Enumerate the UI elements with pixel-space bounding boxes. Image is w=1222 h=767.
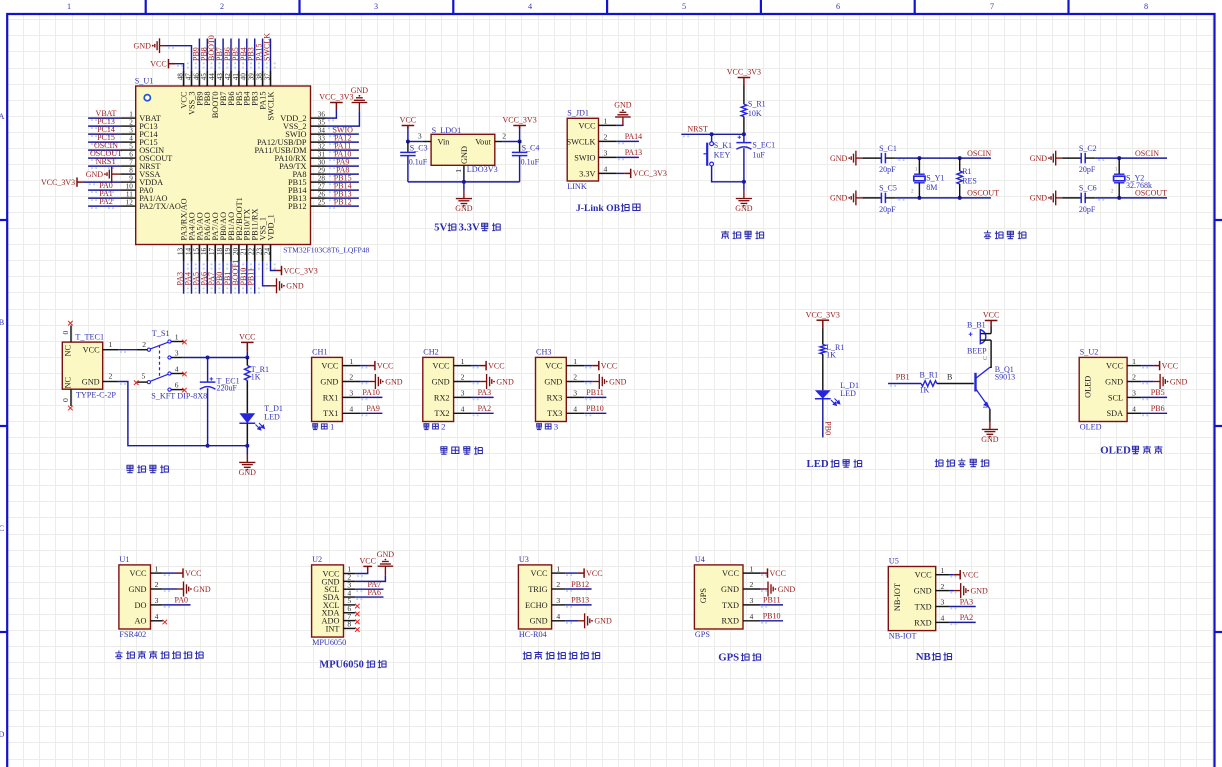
svg-text:T_S1: T_S1	[152, 329, 170, 338]
CH2 pin 1 VCC	[433, 357, 505, 371]
svg-text:13: 13	[177, 247, 185, 255]
U1 pin 33 PA12/USB/DP	[257, 134, 359, 148]
svg-text:GND: GND	[614, 101, 632, 110]
module U2 MPU6050 body	[312, 555, 347, 647]
U1 pin 10 PA0	[88, 181, 153, 195]
svg-text:S_LDO1: S_LDO1	[432, 126, 462, 135]
svg-text:J-Link OB: J-Link OB	[576, 203, 621, 214]
svg-text:3: 3	[129, 126, 133, 134]
svg-text:S_C6: S_C6	[1079, 184, 1097, 193]
U1 pin 29 PA8	[293, 166, 359, 180]
svg-text:BEEP: BEEP	[967, 347, 987, 356]
module CH2 body	[423, 348, 454, 422]
svg-text:T_TEC1: T_TEC1	[75, 332, 104, 341]
LDO pin 2 Vout wire	[495, 132, 522, 144]
CH2 pin 4 TX2	[434, 404, 493, 418]
svg-text:45: 45	[200, 73, 208, 81]
svg-text:0: 0	[61, 398, 70, 402]
svg-text:SWCLK: SWCLK	[566, 137, 595, 146]
svg-text:GPS: GPS	[699, 588, 708, 604]
wire emitter to ground	[989, 409, 991, 422]
svg-text:TX3: TX3	[547, 409, 562, 418]
svg-text:GND: GND	[129, 585, 147, 594]
svg-text:NB: NB	[916, 651, 931, 663]
svg-text:FSR402: FSR402	[119, 630, 146, 639]
svg-text:B: B	[947, 372, 952, 381]
svg-text:GPS: GPS	[695, 630, 710, 639]
svg-text:7: 7	[129, 158, 133, 166]
node NRST wire	[681, 124, 746, 136]
svg-text:S_C5: S_C5	[879, 184, 897, 193]
svg-text:2: 2	[109, 372, 113, 381]
svg-text:39: 39	[248, 73, 256, 81]
U1 pin 39 PB3	[247, 39, 260, 106]
U1 pin 1 VCC	[129, 564, 201, 578]
svg-text:1: 1	[915, 167, 918, 173]
svg-text:1: 1	[330, 421, 334, 431]
svg-text:1: 1	[556, 564, 560, 573]
node OSCOUT wire	[895, 189, 999, 200]
U1 pin 6 OSCOUT	[88, 149, 172, 163]
svg-text:PB11: PB11	[586, 388, 604, 397]
svg-text:S_JD1: S_JD1	[567, 108, 589, 117]
push button S_K1 KEY	[704, 134, 746, 184]
svg-text:TXD: TXD	[915, 602, 932, 611]
svg-text:26: 26	[318, 190, 326, 198]
svg-text:1K: 1K	[920, 386, 930, 395]
svg-text:S_C1: S_C1	[879, 144, 897, 153]
power port VCC_3V3 (LDO output)	[502, 116, 536, 142]
svg-text:3.3V: 3.3V	[459, 222, 480, 234]
svg-text:PB1: PB1	[896, 372, 910, 381]
svg-text:LED: LED	[807, 458, 829, 470]
svg-text:VCC: VCC	[1162, 361, 1178, 370]
svg-text:STM32F103C8T6_LQFP48: STM32F103C8T6_LQFP48	[283, 246, 369, 255]
svg-text:SDA: SDA	[1106, 409, 1123, 418]
svg-text:0.1uF: 0.1uF	[521, 157, 540, 166]
svg-text:CH3: CH3	[536, 348, 551, 357]
svg-text:PB12: PB12	[334, 198, 352, 207]
svg-text:0.1uF: 0.1uF	[409, 157, 428, 166]
svg-text:GND: GND	[530, 617, 548, 626]
svg-text:RXD: RXD	[914, 618, 932, 627]
svg-text:S9013: S9013	[995, 372, 1015, 381]
U1 pin 38 PA15	[255, 39, 268, 110]
U1 pin 36 VDD_2	[280, 93, 353, 123]
CH1 pin 3 RX1	[323, 388, 383, 402]
svg-text:3: 3	[556, 596, 560, 605]
svg-text:2: 2	[604, 132, 608, 141]
U4 pin 3 TXD	[722, 596, 783, 610]
U1 pin 13 PA3/RX/AO	[176, 198, 189, 293]
svg-text:VCC: VCC	[433, 362, 451, 371]
svg-text:PB11: PB11	[763, 596, 781, 605]
transistor B_Q1 S9013	[976, 356, 1016, 409]
U1 pin 12 PA2/TX/AO	[88, 197, 181, 211]
title: film pressure sensing module	[115, 651, 203, 659]
svg-text:NRST: NRST	[96, 157, 117, 166]
svg-text:TX2: TX2	[434, 409, 449, 418]
svg-text:2: 2	[573, 373, 577, 382]
svg-text:29: 29	[318, 166, 326, 174]
svg-text:LED: LED	[264, 412, 280, 421]
ground symbol (reset)	[735, 182, 753, 213]
U1 pin 17 PA7/AO	[207, 212, 220, 293]
svg-text:17: 17	[208, 247, 216, 255]
svg-text:RX2: RX2	[434, 393, 450, 402]
capacitor S_C3 0.1uF	[400, 142, 428, 182]
U1 pin 9 VDDA	[41, 174, 163, 187]
CH1 pin 1 VCC	[321, 357, 393, 371]
U1 pin 34 SWIO	[285, 126, 359, 140]
svg-text:B_R1: B_R1	[920, 371, 939, 380]
title: J-Link OB interface	[576, 203, 640, 214]
svg-text:1: 1	[349, 357, 353, 366]
U1 pin 23 VSS_1	[256, 217, 304, 293]
svg-text:1: 1	[175, 333, 179, 342]
svg-text:PB13: PB13	[571, 596, 589, 605]
CH3 pin 2 GND	[544, 373, 626, 389]
svg-text:44: 44	[208, 73, 216, 81]
svg-text:S_K1: S_K1	[714, 141, 732, 150]
wire switch pin3 to VCC rail	[183, 356, 250, 360]
svg-text:GND: GND	[594, 617, 612, 626]
svg-text:8M: 8M	[926, 183, 937, 192]
svg-text:PA2: PA2	[960, 613, 974, 622]
U3 pin 2 TRIG	[528, 580, 591, 594]
svg-text:20pF: 20pF	[879, 205, 896, 214]
power port VCC_3V3 (LED circuit)	[806, 310, 840, 328]
svg-text:1K: 1K	[826, 351, 836, 360]
svg-text:GND: GND	[351, 86, 369, 95]
svg-text:GND: GND	[778, 585, 796, 594]
svg-text:1uF: 1uF	[752, 150, 765, 159]
svg-text:E: E	[983, 405, 989, 409]
U1 pin 25 PB12	[288, 198, 359, 212]
U4 pin 4 RXD	[721, 612, 783, 626]
svg-text:VCC_3V3: VCC_3V3	[284, 266, 318, 275]
U1 pin 40 PB4	[239, 39, 252, 106]
crystal S_Y1 8M	[911, 158, 945, 198]
svg-text:4: 4	[604, 164, 608, 173]
svg-text:VCC: VCC	[377, 361, 393, 370]
U1 pin 30 PA9/TX	[279, 158, 359, 172]
buzzer B_B1 BEEP	[967, 321, 991, 356]
LDO pin 1 GND lead	[454, 165, 464, 182]
svg-text:S_C3: S_C3	[410, 144, 428, 153]
capacitor T_EC1 220uF (polarized)	[200, 358, 240, 448]
svg-text:25: 25	[318, 198, 326, 206]
svg-text:S_Y1: S_Y1	[926, 174, 944, 183]
svg-text:43: 43	[216, 73, 224, 81]
svg-text:24: 24	[263, 247, 271, 255]
svg-text:MPU6050: MPU6050	[312, 638, 346, 647]
svg-text:2: 2	[441, 421, 445, 431]
svg-text:4: 4	[556, 612, 560, 621]
LDO ground rail wire	[408, 180, 520, 184]
T_TEC1 pin 2 GND wire	[103, 372, 248, 446]
svg-text:D: D	[0, 730, 5, 739]
U2 VCC riser wire and port	[355, 557, 376, 576]
svg-text:3: 3	[418, 132, 422, 141]
svg-text:NB-IOT: NB-IOT	[889, 632, 917, 641]
microcontroller U1 STM32F103C8T6 body	[135, 77, 370, 255]
svg-text:B_B1: B_B1	[967, 321, 986, 330]
svg-text:OLED: OLED	[1100, 445, 1131, 457]
crystal S_Y2 32.768k	[1111, 158, 1152, 198]
svg-text:GND: GND	[496, 377, 514, 386]
svg-text:PB11: PB11	[247, 268, 256, 286]
U2 pin 4 SDA	[323, 588, 384, 602]
U1 pin 31 PA10/RX	[275, 150, 359, 164]
svg-text:7: 7	[990, 2, 994, 11]
svg-text:NC: NC	[64, 377, 73, 389]
svg-text:2: 2	[129, 118, 133, 126]
svg-text:LED: LED	[840, 389, 856, 398]
svg-text:LDO3V3: LDO3V3	[467, 165, 498, 174]
svg-text:1K: 1K	[251, 372, 261, 381]
svg-text:PB12: PB12	[571, 580, 589, 589]
svg-text:OSCIN: OSCIN	[967, 149, 991, 158]
svg-text:VCC: VCC	[321, 362, 339, 371]
title: MPU6050 module	[319, 660, 386, 671]
svg-text:20pF: 20pF	[1079, 165, 1096, 174]
svg-text:1: 1	[941, 566, 945, 575]
svg-text:U2: U2	[312, 555, 322, 564]
svg-text:VCC: VCC	[586, 569, 602, 578]
capacitor S_C6 20pF	[1062, 184, 1096, 214]
power port VCC (power circuit)	[239, 333, 255, 358]
svg-text:37: 37	[263, 73, 271, 81]
module U4 GPS body	[694, 555, 743, 639]
svg-text:U3: U3	[519, 555, 529, 564]
svg-text:5: 5	[129, 142, 133, 150]
svg-text:PA2: PA2	[478, 404, 492, 413]
CH3 pin 3 RX3	[547, 388, 607, 402]
U1 pin 4 PC15	[88, 133, 158, 147]
CH1 pin 2 GND	[320, 373, 402, 389]
svg-text:GND: GND	[455, 204, 473, 213]
svg-text:Vin: Vin	[438, 137, 451, 146]
svg-text:PA0: PA0	[175, 596, 189, 605]
svg-text:32.768k: 32.768k	[1126, 181, 1152, 190]
module U5 NB-IOT body	[888, 557, 935, 641]
svg-text:PA2/TX/AO: PA2/TX/AO	[139, 202, 181, 211]
svg-text:GND: GND	[320, 377, 338, 386]
svg-text:10: 10	[126, 182, 134, 190]
title: crystal circuit	[984, 231, 1026, 239]
svg-text:SWCLK: SWCLK	[263, 33, 272, 61]
ground symbol (xtal bottom)	[1030, 191, 1062, 206]
svg-text:35: 35	[318, 118, 326, 126]
svg-text:4: 4	[129, 134, 133, 142]
ground symbol (xtal top)	[830, 151, 862, 166]
U1 pin 11 PA1/AO	[88, 189, 167, 203]
svg-text:S_C2: S_C2	[1079, 144, 1097, 153]
svg-text:GND: GND	[609, 377, 627, 386]
svg-text:VCC: VCC	[770, 569, 786, 578]
U2 pin 2 GND	[322, 573, 356, 587]
U1 pin 45 PB8	[199, 39, 212, 106]
U1 pin 43 PB7	[215, 39, 228, 106]
CH1 pin 4 TX1	[323, 404, 382, 418]
svg-text:3: 3	[1132, 389, 1136, 398]
U2 pin 1 VCC	[322, 565, 355, 579]
svg-text:VCC: VCC	[185, 569, 201, 578]
svg-text:20: 20	[232, 247, 240, 255]
resistor B_R1 1K	[920, 371, 974, 395]
svg-text:VCC_3V3: VCC_3V3	[502, 116, 536, 125]
svg-text:GND: GND	[1170, 377, 1188, 386]
svg-text:PB12: PB12	[288, 202, 306, 211]
svg-text:3: 3	[175, 349, 179, 358]
ground symbol (xtal top)	[1030, 151, 1062, 166]
svg-text:OSCIN: OSCIN	[1135, 149, 1159, 158]
svg-text:21: 21	[240, 247, 248, 255]
svg-text:PA14: PA14	[625, 132, 643, 141]
svg-text:NRST: NRST	[687, 124, 708, 133]
svg-text:VCC: VCC	[488, 361, 504, 370]
svg-text:TRIG: TRIG	[528, 585, 547, 594]
svg-text:VCC: VCC	[400, 116, 416, 125]
capacitor S_EC1 1uF (polarized)	[736, 134, 775, 182]
svg-text:GND: GND	[971, 586, 989, 595]
svg-text:5V: 5V	[434, 222, 447, 234]
svg-text:GND: GND	[193, 585, 211, 594]
voltage regulator S_LDO1 body	[431, 126, 498, 174]
svg-text:3: 3	[155, 596, 159, 605]
svg-text:VCC: VCC	[531, 569, 549, 578]
module S_U2 OLED body	[1079, 348, 1127, 432]
svg-text:4: 4	[155, 612, 159, 621]
svg-text:GND: GND	[385, 377, 403, 386]
power port VCC_3V3 (reset pull-up)	[727, 68, 761, 86]
svg-text:3: 3	[349, 389, 353, 398]
ground symbol (xtal bottom)	[830, 191, 862, 206]
S_JD1 pin 4	[599, 164, 667, 178]
svg-text:U5: U5	[889, 557, 899, 566]
S_JD1 pin 1	[599, 101, 632, 126]
title: power circuit	[126, 465, 168, 473]
module U3 HC-R04 body	[518, 555, 551, 639]
CH3 pin 4 TX3	[547, 404, 606, 418]
svg-text:OLED: OLED	[1080, 422, 1102, 431]
U5 pin 3 TXD	[915, 597, 976, 611]
U1 pin 35 VSS_2	[283, 86, 368, 131]
U1 pin 44 BOOT0	[207, 35, 220, 118]
S_U2 pin 4 SDA	[1106, 404, 1167, 418]
power port VCC (buzzer)	[983, 311, 999, 334]
svg-text:3: 3	[573, 389, 577, 398]
svg-text:GND: GND	[134, 42, 152, 51]
svg-text:3: 3	[941, 598, 945, 607]
svg-text:CH2: CH2	[423, 348, 438, 357]
U2 pin 5 XCL	[323, 596, 360, 610]
svg-text:PB0: PB0	[824, 421, 833, 435]
svg-text:AO: AO	[135, 617, 147, 626]
svg-text:GND: GND	[1030, 154, 1048, 163]
svg-text:GND: GND	[830, 194, 848, 203]
svg-text:VCC: VCC	[150, 60, 166, 69]
svg-text:GND: GND	[735, 204, 753, 213]
svg-text:9: 9	[129, 174, 133, 182]
svg-text:INT: INT	[326, 624, 340, 633]
U1 pin 2 GND	[129, 580, 211, 596]
svg-text:GPS: GPS	[718, 652, 739, 664]
svg-text:2: 2	[220, 2, 224, 11]
svg-text:VCC_3V3: VCC_3V3	[806, 310, 840, 319]
svg-text:VDD_1: VDD_1	[266, 214, 275, 240]
svg-text:2: 2	[750, 580, 754, 589]
node OSCOUT wire	[1095, 189, 1167, 200]
svg-text:16: 16	[200, 247, 208, 255]
svg-text:RES: RES	[962, 176, 977, 185]
S_JD1 pin 2	[599, 132, 643, 143]
U1 pin 22 PB11/RX	[247, 209, 260, 294]
svg-text:3: 3	[461, 389, 465, 398]
LDO pin 3 Vin wire	[406, 132, 431, 144]
T_TEC1 pin 0 top (NC)	[61, 321, 73, 342]
svg-text:47: 47	[184, 73, 192, 81]
svg-text:2: 2	[911, 189, 914, 195]
svg-text:40: 40	[240, 73, 248, 81]
svg-text:GND: GND	[86, 170, 104, 179]
title: NB module	[916, 651, 952, 663]
svg-text:DO: DO	[135, 601, 147, 610]
svg-text:RX3: RX3	[547, 393, 563, 402]
svg-text:RX1: RX1	[323, 393, 339, 402]
svg-text:1: 1	[67, 2, 71, 11]
connector S_JD1 J-Link body	[566, 108, 598, 191]
svg-text:6: 6	[175, 381, 179, 390]
svg-text:6: 6	[836, 2, 840, 11]
U1 pin 42 PB6	[223, 39, 236, 106]
svg-text:TXD: TXD	[722, 601, 739, 610]
U5 pin 4 RXD	[914, 613, 976, 627]
U3 pin 1 VCC	[531, 564, 603, 578]
ground symbol (power)	[239, 446, 257, 477]
node PB1 wire	[888, 372, 921, 386]
svg-text:NB-IOT: NB-IOT	[893, 583, 902, 611]
svg-text:SWCLK: SWCLK	[266, 91, 275, 120]
capacitor S_C4 0.1uF	[512, 142, 540, 182]
capacitor S_C5 20pF	[862, 184, 896, 214]
svg-text:GND: GND	[460, 146, 469, 164]
svg-text:VCC: VCC	[129, 569, 147, 578]
U1 pin 27 PB14	[288, 182, 359, 196]
U1 pin 7 NRST	[88, 157, 160, 171]
svg-text:S_EC1: S_EC1	[752, 141, 775, 150]
U1 pin 15 PA5/AO	[191, 212, 204, 293]
node OSCIN wire	[895, 149, 991, 160]
svg-text:PA3: PA3	[960, 597, 974, 606]
node PB0 wire	[823, 399, 833, 438]
svg-text:2: 2	[941, 582, 945, 591]
svg-text:A: A	[0, 112, 5, 121]
svg-text:NC: NC	[64, 345, 73, 357]
U1 pin 20 PB2/BOOT1	[231, 197, 244, 294]
svg-text:OLED: OLED	[1084, 376, 1093, 398]
svg-text:C: C	[0, 524, 5, 533]
svg-text:U4: U4	[695, 555, 705, 564]
svg-text:VCC: VCC	[962, 571, 978, 580]
svg-text:20pF: 20pF	[1079, 205, 1096, 214]
svg-text:42: 42	[224, 73, 232, 81]
U5 pin 2 GND	[914, 582, 988, 598]
svg-text:220uF: 220uF	[217, 384, 238, 393]
svg-text:HC-R04: HC-R04	[519, 630, 547, 639]
svg-text:S_U2: S_U2	[1080, 348, 1099, 357]
